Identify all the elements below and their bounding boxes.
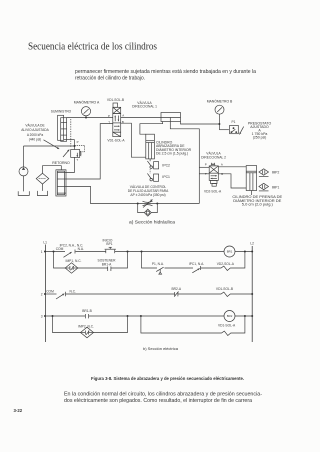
VD1-SOL-A branch wire <box>141 316 245 333</box>
pipe crossing bridge <box>161 113 181 122</box>
solenoid VD2-SOL-A <box>219 266 231 270</box>
svg-text:retracción del cilindro de tra: retracción del cilindro de trabajo. <box>75 76 145 82</box>
svg-text:permanecer firmemente sujetada: permanecer firmemente sujetada mientras … <box>75 69 256 75</box>
label VALVULA DE ALIVIO <box>21 123 49 141</box>
rung 2 wire <box>45 293 252 295</box>
svg-text:DIRECCIONAL 1: DIRECCIONAL 1 <box>132 104 157 108</box>
label flow control valve <box>128 185 169 197</box>
svg-text:IMP2: IMP2 <box>272 171 280 175</box>
svg-text:P: P <box>77 140 79 144</box>
wire valve2 P to rail <box>199 166 209 168</box>
svg-text:En la condición normal del cir: En la condición normal del circuito, los… <box>64 392 262 398</box>
filter <box>36 166 61 191</box>
right rail L2 <box>251 246 253 342</box>
wire valve2 B to press cylinder rod end <box>218 174 246 188</box>
bottom paragraph <box>64 392 262 404</box>
svg-text:ΔP ± 2400 kPa (350 psi): ΔP ± 2400 kPa (350 psi) <box>130 193 165 197</box>
svg-text:B: B <box>221 172 223 176</box>
contact BR2-A NC <box>174 292 178 297</box>
svg-text:A: A <box>221 162 223 166</box>
junction dot holding branch <box>127 251 129 253</box>
limit switch contact IPC1 <box>192 266 200 273</box>
svg-text:1: 1 <box>41 250 43 254</box>
limit switch contact IPC2 NA <box>64 250 76 258</box>
limit switch contact IPC2 NC <box>56 292 66 299</box>
svg-text:VD1-SOL-A: VD1-SOL-A <box>218 324 236 328</box>
tank under filter <box>38 191 48 196</box>
proximity switch IMP1 <box>259 183 269 191</box>
svg-text:DIRECCIONAL 2: DIRECCIONAL 2 <box>201 155 226 159</box>
junction dot gauge A <box>85 117 87 119</box>
proximity switch contact IMP2 <box>81 327 94 338</box>
svg-text:ALIVIO AJUSTADA: ALIVIO AJUSTADA <box>21 128 49 132</box>
return manifold <box>56 170 66 196</box>
svg-text:Secuencia eléctrica de los cil: Secuencia eléctrica de los cilindros <box>28 42 157 53</box>
pushbutton BP1 <box>105 247 116 253</box>
limit switch IPC1 <box>147 173 158 181</box>
junction dot gauge B <box>218 123 220 125</box>
svg-text:L1: L1 <box>43 240 47 244</box>
svg-text:3: 3 <box>41 314 43 318</box>
wire relief T to return manifold <box>66 157 75 172</box>
svg-text:DE 2,5 cm (1,5 pulg.): DE 2,5 cm (1,5 pulg.) <box>156 152 188 156</box>
svg-text:MANÓMETRO A: MANÓMETRO A <box>74 100 100 105</box>
junction dot P1 branch <box>141 251 143 253</box>
wire valve2 T to rail <box>199 173 209 175</box>
svg-text:VD1-SOL-B: VD1-SOL-B <box>107 98 124 102</box>
flow control valve <box>138 200 158 208</box>
pressure gauge B <box>215 105 229 130</box>
rail junction dots <box>44 251 253 318</box>
wire bridge to press branch <box>140 118 220 204</box>
svg-text:VD2-SOL-A: VD2-SOL-A <box>204 190 222 194</box>
wire return manifold to flow control <box>66 186 138 203</box>
svg-text:IPC1, N.A.: IPC1, N.A. <box>189 262 204 266</box>
svg-text:Figura 3-8. Sistema de abrazad: Figura 3-8. Sistema de abrazadera y de p… <box>91 376 244 381</box>
svg-text:3-22: 3-22 <box>14 408 23 413</box>
svg-text:2: 2 <box>41 292 43 296</box>
svg-text:P1: P1 <box>232 120 236 124</box>
junction dots flow control <box>137 203 139 205</box>
leader arrow to relief valve <box>44 140 60 149</box>
pressure gauge A <box>81 107 90 118</box>
contact BR1-B <box>85 314 88 318</box>
wire valve1 B to clamp rod end <box>121 123 146 157</box>
svg-text:COM: COM <box>46 289 54 293</box>
junction dot rung3 sol branch <box>140 315 142 317</box>
wire supply line <box>67 117 113 119</box>
svg-text:5,0 cm (2,0 pulg.): 5,0 cm (2,0 pulg.) <box>242 202 274 207</box>
svg-text:dos eléctricamente son plegado: dos eléctricamente son plegados. Como re… <box>64 398 252 404</box>
supply manifold <box>58 115 67 141</box>
svg-text:IMP1: IMP1 <box>272 185 280 189</box>
press cylinder <box>246 166 256 195</box>
svg-text:COM: COM <box>56 247 64 251</box>
relief valve <box>63 119 85 157</box>
proximity switch contact IMP1 <box>65 263 78 273</box>
svg-text:BR1: BR1 <box>227 250 233 254</box>
label PRESOSTATO <box>248 121 272 139</box>
svg-text:B: B <box>122 120 124 124</box>
holding branch wire <box>54 252 128 269</box>
IMP2 branch wire <box>53 316 128 333</box>
check valve bypass <box>138 204 158 217</box>
svg-text:(440 psi): (440 psi) <box>29 137 41 141</box>
left rail L1 <box>44 245 46 343</box>
svg-text:IPC2: IPC2 <box>162 164 170 168</box>
svg-text:BR2: BR2 <box>227 314 233 318</box>
wire valve2 A to press cylinder <box>218 166 246 168</box>
svg-text:IPC1: IPC1 <box>162 175 170 179</box>
svg-text:SUMINISTRO: SUMINISTRO <box>51 110 72 114</box>
junction dot COM <box>53 251 55 253</box>
svg-text:(250 psi): (250 psi) <box>253 135 267 139</box>
solenoid VD1-SOL-B <box>219 292 231 296</box>
solenoid VD1-SOL-A <box>220 331 232 335</box>
limit switch IPC2 <box>147 161 158 169</box>
wire valve1 T to return <box>66 124 113 179</box>
wire flow control to valve2 <box>157 203 199 205</box>
relay coil BR2 <box>224 311 235 322</box>
rung 3 wire <box>45 315 252 317</box>
svg-text:b) Sección eléctrica: b) Sección eléctrica <box>143 346 179 351</box>
pressure switch contact P1 <box>156 267 163 274</box>
junction dot rung3 right <box>244 315 246 317</box>
svg-text:P1, N.A.: P1, N.A. <box>152 262 164 266</box>
directional valve VD1 <box>113 103 121 137</box>
svg-text:A: A <box>122 114 124 118</box>
clamp cylinder <box>146 134 155 161</box>
svg-text:T: T <box>76 158 78 162</box>
label press cylinder <box>232 194 282 207</box>
pressure switch P1 <box>230 125 244 134</box>
svg-text:BR2-A: BR2-A <box>172 287 182 291</box>
proximity switch IMP2 <box>259 169 269 177</box>
contact BR1-A <box>108 267 111 272</box>
svg-text:BR1-A: BR1-A <box>102 262 112 266</box>
intro paragraph <box>75 69 256 81</box>
svg-text:VD1-SOL-A: VD1-SOL-A <box>107 138 125 142</box>
junction dot rung3 left <box>52 315 54 317</box>
directional valve VD2 <box>209 163 218 186</box>
svg-text:N.A.: N.A. <box>78 247 84 251</box>
svg-text:VD1-SOL-B: VD1-SOL-B <box>216 287 233 291</box>
svg-text:BR1-B: BR1-B <box>82 309 92 313</box>
junction dot rung1 right <box>244 251 246 253</box>
svg-text:VÁLVULA DE: VÁLVULA DE <box>25 123 44 127</box>
svg-text:N.C.: N.C. <box>70 289 77 293</box>
svg-text:VD2-SOL-A: VD2-SOL-A <box>217 262 235 266</box>
svg-text:MANÓMETRO B: MANÓMETRO B <box>207 98 233 103</box>
rung 1 wire <box>45 251 252 253</box>
label clamp cylinder <box>156 140 192 155</box>
svg-text:a) Sección hidráulica: a) Sección hidráulica <box>129 219 176 224</box>
relay coil BR1 <box>224 246 235 257</box>
svg-text:P: P <box>108 114 110 118</box>
wire pump to relief P <box>24 140 75 150</box>
tank under pump <box>18 191 29 195</box>
pump <box>19 146 28 191</box>
junction dot relief P <box>74 145 76 147</box>
svg-text:BP1: BP1 <box>106 242 112 246</box>
svg-text:L2: L2 <box>250 241 254 245</box>
wire valve1 A to bridge <box>121 117 161 119</box>
svg-text:T: T <box>205 172 207 176</box>
P1 branch wire <box>142 252 245 269</box>
svg-text:IMP1, N.C.: IMP1, N.C. <box>66 259 82 263</box>
rod dashes between switches <box>149 169 151 173</box>
svg-text:P: P <box>205 162 207 166</box>
junction dot rung3 mid <box>127 315 129 317</box>
svg-text:RETORNO: RETORNO <box>52 161 70 165</box>
